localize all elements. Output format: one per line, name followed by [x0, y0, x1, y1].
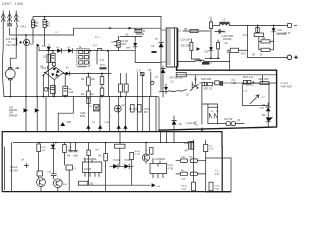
svg-text:400-10M: 400-10M — [181, 45, 190, 48]
svg-text:CL: CL — [74, 168, 78, 170]
svg-text:10k: 10k — [91, 78, 96, 81]
fuse F2 — [96, 49, 104, 51]
diode D15 — [24, 108, 29, 112]
junction circle — [52, 51, 54, 54]
capacitor C5 — [46, 85, 55, 96]
secondary top rail wire — [74, 28, 161, 35]
resistor R19 — [63, 143, 73, 162]
winding scallops — [136, 34, 144, 35]
vertical feed wire — [108, 51, 110, 97]
diode D10 — [210, 31, 212, 47]
diode D18 — [86, 125, 90, 129]
secondary mid wire — [178, 62, 195, 67]
svg-text:R3: R3 — [81, 78, 85, 81]
svg-text:(+): (+) — [93, 43, 97, 47]
svg-text:4k: 4k — [145, 150, 148, 152]
left column wire — [4, 147, 6, 190]
resistor R12 — [232, 76, 255, 85]
svg-text:L3: L3 — [210, 62, 213, 65]
svg-text:mak: mak — [69, 91, 74, 94]
wire — [42, 76, 44, 96]
primary winding wire — [161, 30, 166, 62]
resistor R32 — [131, 105, 135, 113]
capacitor bank C18 — [202, 82, 213, 90]
diode D9 — [272, 26, 291, 41]
capacitor C8 — [124, 74, 128, 97]
svg-text:BU: BU — [35, 24, 39, 28]
capacitor C13 — [114, 104, 125, 112]
svg-text:4 MF 400V: 4 MF 400V — [281, 85, 293, 88]
main vertical bus wire — [160, 17, 162, 90]
svg-text:MF: MF — [96, 150, 100, 152]
diode D25 — [197, 47, 201, 51]
svg-text:4x: 4x — [66, 67, 69, 70]
fuse A2 wire — [247, 26, 249, 58]
svg-text:U10: U10 — [204, 51, 209, 54]
output rail 2 wire — [248, 57, 287, 59]
svg-text:A Tx: A Tx — [100, 59, 106, 62]
svg-text:A1: A1 — [209, 16, 213, 20]
resistor R15 — [226, 119, 244, 126]
diode D17 — [60, 121, 71, 126]
svg-text:220k: 220k — [182, 188, 188, 190]
rectified feed wire — [39, 47, 108, 51]
resistor R27 — [182, 182, 196, 191]
resistor R10 — [169, 73, 186, 84]
svg-text:C4: C4 — [21, 159, 25, 162]
wire — [90, 51, 98, 64]
resistor R5 — [100, 74, 104, 89]
svg-text:GF1: GF1 — [21, 25, 27, 29]
svg-text:220k: 220k — [181, 179, 187, 181]
wire — [204, 62, 230, 71]
diode D6 — [159, 43, 164, 48]
wire — [108, 36, 136, 50]
diode D20 — [117, 125, 121, 129]
wire Q2 down — [44, 27, 46, 45]
svg-text:R4: R4 — [81, 93, 85, 96]
svg-text:U3: U3 — [237, 119, 241, 122]
capacitor C20 — [88, 105, 99, 111]
svg-text:L1: L1 — [179, 30, 182, 33]
svg-text:C2: C2 — [55, 32, 59, 34]
jumper wire — [58, 112, 73, 114]
diode D24 — [122, 159, 133, 169]
diode D16 — [35, 108, 40, 112]
svg-text:C10: C10 — [222, 31, 227, 34]
dc wire — [70, 73, 111, 75]
capacitor C10 — [215, 30, 227, 34]
svg-text:S1: S1 — [216, 111, 219, 113]
svg-text:12: 12 — [48, 45, 51, 47]
resistor R23 — [168, 157, 194, 167]
resistor R28 — [209, 182, 221, 191]
svg-text:GF2: GF2 — [42, 67, 47, 70]
label blob — [100, 67, 107, 69]
diode D27 — [152, 183, 161, 188]
svg-text:10M: 10M — [181, 157, 185, 159]
inductor L2 — [219, 19, 229, 26]
svg-text:R10a: R10a — [182, 186, 188, 188]
aux cluster — [137, 70, 145, 97]
svg-text:C4: C4 — [151, 44, 155, 48]
svg-text:D2: D2 — [68, 47, 72, 49]
diode D21 — [123, 125, 127, 129]
transformer T1 — [166, 28, 182, 67]
svg-text:HC04: HC04 — [114, 159, 121, 162]
wire to bus — [135, 51, 161, 63]
capacitor C2 — [51, 53, 55, 62]
svg-text:MC: MC — [95, 109, 99, 112]
AC line 1 wire — [3, 11, 4, 97]
bottom rail wire — [78, 184, 150, 186]
bridge rectifier BR1 — [44, 66, 65, 97]
svg-text:MF: MF — [262, 104, 266, 107]
snubber right cluster — [202, 31, 248, 65]
diode DZ2 — [51, 145, 55, 149]
thermistor RT2 — [44, 87, 48, 91]
svg-text:C1a: C1a — [88, 106, 93, 108]
capacitor C3 — [63, 74, 74, 97]
svg-text:100k: 100k — [188, 157, 194, 159]
diode D8 — [66, 72, 70, 76]
svg-text:4.2k: 4.2k — [209, 149, 214, 151]
fuse A1 — [209, 16, 213, 32]
node dots — [88, 73, 90, 75]
transistor Q9 — [37, 178, 46, 187]
svg-text:TP: TP — [155, 38, 158, 41]
svg-text:CE97 - 1000: CE97 - 1000 — [2, 2, 23, 6]
transistor Q1 — [31, 20, 38, 28]
svg-text:4 and 3M: 4 and 3M — [186, 122, 196, 125]
svg-text:L10: L10 — [244, 91, 248, 93]
regulator box U1 — [242, 75, 269, 110]
transistor Q4 — [37, 44, 40, 48]
svg-text:U2: U2 — [171, 81, 175, 84]
wire — [217, 123, 226, 125]
switch S1 — [43, 66, 48, 76]
transistor Q2 — [43, 19, 50, 27]
svg-text:U2M: U2M — [105, 122, 110, 124]
node dot — [44, 16, 46, 18]
resistor R16 — [87, 98, 90, 103]
svg-text:4.7M: 4.7M — [168, 167, 173, 170]
svg-text:MS: MS — [144, 111, 148, 114]
diode D3 — [57, 49, 61, 53]
transistor Q11 — [142, 154, 149, 161]
capacitor C11 — [230, 48, 238, 52]
diode D5 — [129, 27, 132, 30]
svg-text:MT1 S1: MT1 S1 — [204, 88, 213, 91]
resistor R26 — [176, 172, 206, 181]
transistor Q3 — [24, 39, 30, 45]
svg-text:A2: A2 — [122, 104, 126, 107]
svg-text:Q3: Q3 — [30, 42, 34, 46]
transistor Q6 — [186, 76, 198, 97]
node dots — [257, 25, 259, 27]
rail junction dots — [10, 96, 12, 98]
transistor Q10 — [53, 179, 67, 188]
svg-text:2R5: 2R5 — [67, 121, 72, 124]
node dot — [52, 50, 54, 52]
diode D13 — [262, 103, 271, 117]
arrester E1 — [1, 14, 5, 22]
diode D19 — [98, 125, 102, 129]
svg-text:MN10M: MN10M — [223, 38, 231, 41]
svg-text:C8: C8 — [148, 69, 152, 72]
svg-text:W1: W1 — [194, 78, 198, 81]
resistor RQ — [204, 140, 214, 158]
svg-text:MF: MF — [262, 114, 266, 117]
secondary output wire — [183, 30, 209, 32]
svg-text:Ta: Ta — [79, 46, 82, 49]
svg-text:R1 1.2k: R1 1.2k — [246, 85, 254, 87]
diode D14 — [262, 114, 273, 127]
capacitor C17 — [73, 150, 79, 157]
svg-text:C6: C6 — [125, 33, 129, 37]
output terminal J1 — [288, 23, 297, 27]
feedback box — [159, 67, 277, 130]
svg-text:PDR: PDR — [80, 115, 85, 118]
label blob — [202, 62, 209, 65]
IC U3 — [150, 158, 167, 178]
svg-text:new: new — [126, 46, 131, 49]
svg-text:Q7: Q7 — [186, 93, 190, 96]
svg-text:R10 4R: R10 4R — [224, 118, 232, 121]
svg-text:1N4007: 1N4007 — [78, 66, 87, 69]
svg-text:B10: B10 — [63, 184, 68, 186]
resistor R21 — [99, 149, 108, 166]
svg-text:R4: R4 — [92, 122, 96, 124]
svg-text:BU: BU — [46, 24, 50, 28]
svg-text:100k: 100k — [73, 155, 79, 158]
svg-text:C10a: C10a — [215, 186, 221, 188]
wire — [193, 140, 195, 182]
resistor R29 — [87, 150, 90, 156]
svg-text:TL NORMAL: TL NORMAL — [152, 158, 166, 161]
svg-text:R10a: R10a — [135, 151, 141, 153]
test point TP2 — [151, 81, 154, 84]
arrester E2 — [8, 14, 12, 22]
resistor R30 — [145, 148, 153, 155]
svg-text:2.2M: 2.2M — [135, 154, 140, 156]
hand-drawn wire — [160, 89, 187, 92]
capacitor C14 — [37, 171, 42, 176]
switch transistor Q5 — [117, 41, 120, 48]
resistor R4 — [81, 91, 94, 98]
svg-text:W: W — [143, 30, 146, 33]
resistor R18 — [37, 144, 46, 171]
svg-text:IC NORMAL: IC NORMAL — [84, 158, 98, 161]
svg-text:Ra: Ra — [99, 155, 103, 158]
resistor R25 — [180, 170, 187, 176]
svg-text:0w: 0w — [225, 42, 228, 45]
svg-text:S2: S2 — [211, 111, 214, 113]
svg-text:C2a: C2a — [68, 147, 73, 149]
AC line 3 wire — [10, 11, 17, 64]
inner rail wire — [13, 142, 193, 144]
inductor L1 — [135, 28, 146, 33]
bobbin X1 — [215, 81, 223, 85]
input source M1 — [5, 64, 18, 97]
svg-text:W: W — [260, 54, 263, 57]
svg-text:D29: D29 — [42, 147, 47, 149]
resistor R33 — [138, 105, 142, 113]
svg-text:DM310M: DM310M — [277, 33, 287, 36]
wire — [213, 25, 220, 27]
diode D23 — [110, 159, 122, 169]
thermistor RT1 — [190, 29, 198, 32]
driver QA — [184, 142, 194, 153]
AC line 2 wire — [10, 11, 74, 35]
svg-text:C7: C7 — [155, 76, 159, 79]
svg-text:4N4004: 4N4004 — [9, 114, 18, 117]
inductor L3 — [195, 60, 204, 62]
wire — [26, 35, 49, 97]
svg-text:R1.0: R1.0 — [241, 53, 247, 56]
svg-text:A2.1: A2.1 — [243, 34, 249, 37]
component chain wire — [200, 82, 261, 84]
inner rail wire — [177, 74, 277, 76]
sense line wire — [150, 72, 152, 97]
wire — [201, 128, 203, 131]
svg-text:AR: AR — [185, 149, 189, 152]
capacitor C16 — [67, 150, 72, 157]
ground rail wire — [4, 96, 158, 98]
output rail + wire — [230, 25, 287, 27]
svg-text:4.7: 4.7 — [262, 97, 266, 99]
resistor R9 — [217, 42, 220, 49]
svg-text:10R 10k 700: 10R 10k 700 — [169, 77, 183, 80]
filter block FL1 — [254, 26, 286, 37]
svg-text:100k: 100k — [215, 188, 221, 190]
wire Q1 down — [32, 27, 34, 43]
feed verticals wire — [12, 132, 174, 191]
svg-text:PN: PN — [42, 44, 46, 48]
resistor R13 — [259, 78, 277, 84]
selector dashed link — [16, 38, 18, 46]
svg-text:LCD: LCD — [232, 82, 237, 85]
top rail wire — [33, 17, 161, 20]
diode D7 — [133, 43, 137, 47]
output terminal J2 — [287, 55, 297, 60]
pot box P1 — [206, 158, 231, 192]
resistor R11 — [190, 42, 193, 50]
crystal Y1 — [79, 181, 94, 185]
capacitor C15 — [47, 172, 56, 180]
resistor R8 — [252, 40, 274, 57]
svg-text:C10-10M: C10-10M — [180, 39, 190, 42]
diode D4 — [68, 49, 72, 53]
rail node dots — [38, 142, 40, 144]
svg-text:10k: 10k — [42, 150, 46, 152]
resistor R22 — [130, 151, 141, 185]
resistor R17 — [115, 144, 125, 148]
svg-text:MR1 MW: MR1 MW — [259, 78, 270, 81]
svg-text:MC140: MC140 — [10, 169, 18, 172]
svg-text:MT: MT — [112, 41, 116, 44]
svg-text:D1: D1 — [57, 47, 61, 49]
wire — [205, 57, 219, 59]
bottom verticals wire — [39, 143, 158, 191]
transistor Q8 — [195, 83, 208, 126]
label blob — [152, 51, 157, 53]
svg-text:v: v — [110, 116, 112, 118]
resistor R31 — [47, 55, 50, 63]
svg-text:MCA 3.2x: MCA 3.2x — [243, 76, 254, 79]
svg-text:Aik: Aik — [67, 155, 71, 158]
resistor R6 — [100, 88, 104, 97]
svg-text:L2: L2 — [223, 19, 226, 22]
svg-text:C 1: C 1 — [95, 36, 99, 39]
middle band verticals wire — [26, 97, 156, 131]
resistor R24 — [168, 159, 206, 171]
relay K1 contacts — [77, 46, 90, 67]
diode D30 — [47, 47, 51, 51]
capacitor C7 — [119, 74, 123, 97]
svg-text:2R: 2R — [252, 54, 255, 57]
svg-text:1k: 1k — [91, 93, 94, 96]
svg-text:MF: MF — [184, 28, 188, 31]
arrow — [19, 41, 21, 43]
svg-text:S1R S1M: S1R S1M — [201, 78, 211, 81]
svg-text:4x4: 4x4 — [157, 186, 161, 188]
arrester E3 — [14, 14, 18, 22]
svg-text:1.M: 1.M — [215, 173, 219, 176]
svg-text:4R: 4R — [179, 123, 182, 126]
svg-text:C4P: C4P — [47, 172, 52, 174]
capacitor F1 — [8, 24, 12, 26]
svg-text:C9: C9 — [47, 87, 51, 90]
snubber network — [108, 33, 161, 63]
svg-text:R v 10A: R v 10A — [129, 108, 138, 111]
capacitor C19 — [89, 148, 120, 185]
node dot — [64, 73, 66, 75]
svg-text:200k: 200k — [260, 108, 266, 110]
svg-text:230 VAC: 230 VAC — [6, 43, 16, 47]
node dot — [109, 27, 111, 29]
svg-text:2N: 2N — [209, 146, 212, 148]
switch block S2 — [208, 104, 220, 124]
IC U2 — [82, 158, 101, 176]
resistor R3 — [81, 74, 96, 92]
diode D12 — [164, 84, 168, 93]
secondary snubber cluster — [180, 39, 200, 62]
svg-text:Ta Tx: Ta Tx — [100, 64, 107, 67]
diode D11 — [155, 66, 165, 97]
resistor R7 — [259, 37, 274, 43]
box CL1 — [66, 165, 77, 170]
svg-text:1M 50: 1M 50 — [84, 167, 92, 171]
oscillator box — [2, 132, 230, 192]
diode D22 — [172, 120, 177, 124]
